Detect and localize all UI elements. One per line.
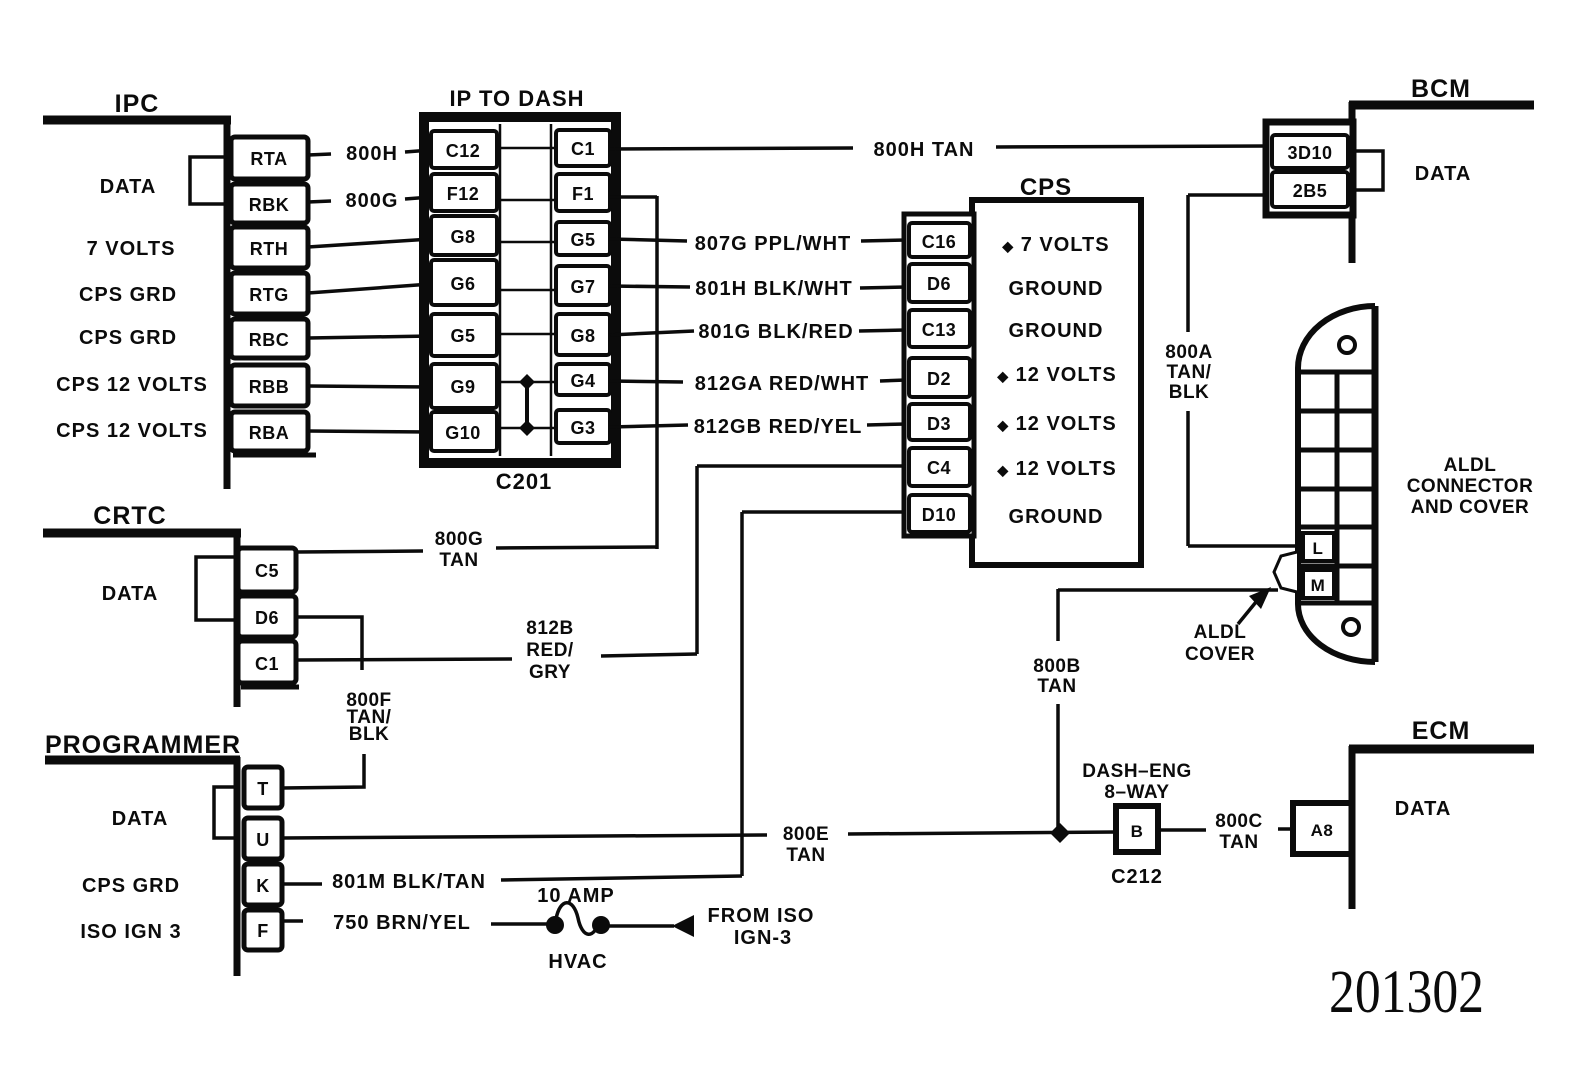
wire 800A vertical upper bbox=[1186, 195, 1190, 332]
svg-text:G6: G6 bbox=[450, 274, 475, 294]
svg-text:G7: G7 bbox=[570, 277, 595, 297]
svg-text:D2: D2 bbox=[927, 369, 951, 389]
C201 row link G6-G7 bbox=[497, 289, 556, 292]
pin RBK bbox=[231, 184, 308, 223]
svg-text:RTH: RTH bbox=[250, 239, 289, 259]
svg-text:B: B bbox=[1131, 822, 1144, 841]
fuse HVAC 10A left terminal bbox=[546, 916, 564, 934]
svg-text:C1: C1 bbox=[255, 654, 279, 674]
svg-text:800C: 800C bbox=[1215, 811, 1262, 832]
ALDL cover tab bbox=[1274, 552, 1297, 592]
svg-text:G5: G5 bbox=[570, 230, 595, 250]
wire G7 to label bbox=[610, 286, 690, 287]
svg-text:BLK: BLK bbox=[349, 724, 390, 745]
svg-text:800B: 800B bbox=[1033, 656, 1080, 677]
pin G10 bbox=[431, 412, 497, 451]
ALDL pin M bbox=[1303, 570, 1334, 598]
label 800F TAN/BLK bbox=[346, 690, 391, 745]
svg-text:D3: D3 bbox=[927, 414, 951, 434]
wire U to 800E label bbox=[282, 835, 767, 838]
svg-text:L: L bbox=[1313, 539, 1324, 558]
svg-text:D6: D6 bbox=[927, 274, 951, 294]
wire 800G TAN vertical bbox=[655, 196, 659, 549]
svg-text:CONNECTOR: CONNECTOR bbox=[1407, 476, 1534, 497]
svg-text:ALDL: ALDL bbox=[1194, 622, 1247, 643]
pin F1 bbox=[556, 174, 610, 211]
PROGRAMMER DATA bracket bbox=[214, 787, 237, 838]
CPS pin strip bbox=[904, 214, 974, 536]
pin D6 (CPS) bbox=[909, 264, 970, 302]
svg-text:800H: 800H bbox=[346, 143, 398, 165]
svg-text:TAN: TAN bbox=[439, 550, 478, 571]
wire RBK stub bbox=[308, 201, 331, 202]
pin D6 (CRTC) bbox=[238, 596, 296, 637]
svg-text:◆ 12 VOLTS: ◆ 12 VOLTS bbox=[996, 413, 1116, 435]
wire G5 to label bbox=[610, 239, 687, 241]
pin RTA bbox=[231, 137, 308, 179]
svg-text:BLK: BLK bbox=[1169, 382, 1210, 403]
svg-text:ISO IGN 3: ISO IGN 3 bbox=[80, 921, 181, 943]
svg-text:CPS GRD: CPS GRD bbox=[82, 875, 180, 897]
ALDL bottom screw hole bbox=[1343, 619, 1359, 635]
wire 800A horizontal stub bbox=[1188, 193, 1266, 197]
pin G9 bbox=[431, 364, 497, 408]
svg-text:800G: 800G bbox=[346, 190, 399, 212]
svg-text:HVAC: HVAC bbox=[548, 951, 607, 973]
svg-text:GROUND: GROUND bbox=[1009, 506, 1104, 528]
wire label to D3 bbox=[867, 424, 906, 425]
pin F12 bbox=[431, 174, 497, 211]
label 800B TAN bbox=[1033, 656, 1080, 697]
svg-text:DATA: DATA bbox=[100, 176, 157, 198]
svg-text:800H TAN: 800H TAN bbox=[874, 139, 975, 161]
pin C16 bbox=[909, 223, 970, 257]
svg-text:F1: F1 bbox=[572, 184, 594, 204]
pin U bbox=[244, 818, 282, 859]
svg-text:CPS GRD: CPS GRD bbox=[79, 327, 177, 349]
BCM connector body bbox=[1266, 122, 1353, 215]
wire 800A to ALDL L bbox=[1188, 544, 1298, 548]
svg-text:AND COVER: AND COVER bbox=[1411, 497, 1530, 518]
module PROGRAMMER header bbox=[45, 731, 241, 976]
pin G7 bbox=[556, 266, 610, 305]
svg-text:IPC: IPC bbox=[115, 90, 160, 118]
wire label to C16 bbox=[861, 240, 906, 241]
module IPC header bbox=[43, 90, 316, 489]
ALDL cover callout line bbox=[1238, 602, 1256, 624]
pin 3D10 bbox=[1272, 135, 1348, 168]
svg-text:TAN: TAN bbox=[786, 845, 825, 866]
wire D10/801M vertical bbox=[740, 512, 744, 876]
C201 tie bar G9-G10 bbox=[525, 382, 529, 428]
svg-text:RTG: RTG bbox=[249, 285, 289, 305]
svg-text:G8: G8 bbox=[450, 227, 475, 247]
svg-text:F12: F12 bbox=[447, 184, 480, 204]
ALDL pin L bbox=[1303, 533, 1334, 561]
ALDL grid bbox=[1298, 372, 1375, 603]
svg-text:U: U bbox=[256, 830, 270, 850]
svg-text:C1: C1 bbox=[571, 139, 595, 159]
wire 800H to C12 bbox=[405, 150, 431, 152]
svg-text:2B5: 2B5 bbox=[1293, 181, 1328, 201]
pin K bbox=[244, 864, 282, 905]
label ALDL COVER bbox=[1185, 622, 1255, 665]
pin G3 bbox=[556, 410, 610, 443]
svg-text:IP TO DASH: IP TO DASH bbox=[449, 86, 584, 111]
connector C201 body bbox=[424, 117, 616, 463]
BCM DATA bracket bbox=[1353, 151, 1383, 190]
wire D6 to 800F corner bbox=[298, 617, 362, 670]
wire 800B vertical lower bbox=[1056, 704, 1060, 834]
wire 800H TAN right segment bbox=[996, 146, 1267, 147]
svg-text:201302: 201302 bbox=[1329, 959, 1484, 1026]
label 800C TAN bbox=[1215, 811, 1262, 853]
wire 801M label to vertical bbox=[501, 876, 742, 880]
wire RTA stub bbox=[308, 154, 331, 155]
label 812B RED/GRY bbox=[526, 618, 574, 683]
C201 row link G10-G3 bbox=[497, 427, 556, 430]
fuse HVAC element bbox=[556, 903, 600, 935]
junction 800B/800E bbox=[1050, 823, 1070, 843]
svg-text:C13: C13 bbox=[922, 320, 957, 340]
CPS body bbox=[972, 200, 1141, 565]
svg-text:GRY: GRY bbox=[529, 662, 571, 683]
svg-text:PROGRAMMER: PROGRAMMER bbox=[45, 731, 241, 759]
label 800E TAN bbox=[783, 824, 829, 866]
svg-text:C12: C12 bbox=[446, 141, 481, 161]
wire C5 to 800G label bbox=[297, 551, 423, 552]
svg-text:GROUND: GROUND bbox=[1009, 320, 1104, 342]
svg-text:G3: G3 bbox=[570, 418, 595, 438]
pin D2 bbox=[909, 358, 970, 397]
wire G8 to label bbox=[610, 331, 694, 335]
label DASH-ENG 8-WAY bbox=[1082, 761, 1192, 803]
junction dot G9 row bbox=[519, 374, 535, 390]
svg-text:TAN: TAN bbox=[1219, 832, 1258, 853]
wire G3 to label bbox=[610, 425, 688, 427]
wire 800E label to B bbox=[848, 832, 1116, 834]
svg-text:G9: G9 bbox=[450, 377, 475, 397]
pin G4 bbox=[556, 364, 610, 395]
pin RTG bbox=[231, 273, 308, 314]
svg-text:CPS: CPS bbox=[1020, 174, 1072, 201]
module ECM header bbox=[1349, 717, 1534, 909]
pin G5 left bbox=[431, 314, 497, 356]
wire 812B label to corner bbox=[601, 654, 697, 656]
arrowhead FROM ISO IGN-3 bbox=[672, 915, 694, 937]
wire 800B vertical upper bbox=[1056, 589, 1060, 641]
svg-text:812GB RED/YEL: 812GB RED/YEL bbox=[694, 416, 863, 438]
svg-text:DASH–ENG: DASH–ENG bbox=[1082, 761, 1192, 782]
svg-text:812B: 812B bbox=[526, 618, 573, 639]
pin D3 bbox=[909, 404, 970, 440]
pin C13 bbox=[909, 310, 970, 347]
label 800A TAN/BLK bbox=[1165, 342, 1212, 403]
svg-text:D10: D10 bbox=[922, 505, 957, 525]
svg-text:FROM ISO: FROM ISO bbox=[708, 905, 815, 927]
C201 middle rails bbox=[499, 124, 502, 456]
svg-text:TAN/: TAN/ bbox=[1167, 362, 1212, 383]
svg-text:800A: 800A bbox=[1165, 342, 1212, 363]
wire C1 to 812B label bbox=[298, 659, 512, 660]
pin RBC bbox=[231, 319, 308, 358]
svg-text:812GA RED/WHT: 812GA RED/WHT bbox=[695, 373, 870, 395]
svg-text:G8: G8 bbox=[570, 326, 595, 346]
label FROM ISO IGN-3 bbox=[708, 905, 815, 949]
svg-text:C16: C16 bbox=[922, 232, 957, 252]
svg-text:◆ 7 VOLTS: ◆ 7 VOLTS bbox=[1001, 234, 1109, 256]
junction dot G10 row bbox=[519, 420, 535, 436]
wire 800B horizontal to M bbox=[1058, 588, 1278, 592]
svg-text:DATA: DATA bbox=[1415, 163, 1472, 185]
svg-text:M: M bbox=[1311, 576, 1326, 595]
label 800G TAN bbox=[435, 529, 483, 571]
wire 800C label to A8 bbox=[1278, 827, 1293, 831]
svg-text:801H BLK/WHT: 801H BLK/WHT bbox=[695, 278, 853, 300]
ALDL top screw hole bbox=[1339, 337, 1355, 353]
svg-text:801G BLK/RED: 801G BLK/RED bbox=[698, 321, 853, 343]
wire RTG to G6 bbox=[308, 284, 431, 293]
label ALDL CONNECTOR AND COVER bbox=[1407, 455, 1534, 518]
svg-text:7 VOLTS: 7 VOLTS bbox=[87, 238, 176, 260]
pin F bbox=[244, 910, 282, 950]
wire label to D2 bbox=[880, 380, 906, 381]
svg-text:F: F bbox=[257, 921, 269, 941]
svg-text:◆ 12 VOLTS: ◆ 12 VOLTS bbox=[996, 458, 1116, 480]
pin G6 bbox=[431, 260, 497, 305]
wire 800H TAN left segment bbox=[610, 148, 853, 149]
wire 800G label to vertical bbox=[496, 547, 657, 548]
svg-text:RBC: RBC bbox=[249, 330, 290, 350]
pin RBB bbox=[231, 365, 308, 406]
svg-text:RTA: RTA bbox=[250, 149, 287, 169]
fuse HVAC 10A right terminal bbox=[592, 916, 610, 934]
svg-text:G5: G5 bbox=[450, 326, 475, 346]
svg-text:D6: D6 bbox=[255, 608, 279, 628]
svg-text:DATA: DATA bbox=[102, 583, 159, 605]
svg-text:K: K bbox=[256, 876, 270, 896]
svg-text:BCM: BCM bbox=[1411, 75, 1471, 103]
wire D10 horizontal bbox=[742, 510, 906, 514]
wire F stub bbox=[282, 919, 303, 923]
svg-text:CPS 12 VOLTS: CPS 12 VOLTS bbox=[56, 374, 208, 396]
module CRTC header bbox=[43, 502, 299, 707]
C201 row link F12-F1 bbox=[497, 199, 556, 202]
wire 800A vertical lower bbox=[1186, 411, 1190, 546]
wire RBA to G10 bbox=[308, 431, 431, 432]
wire 812B vertical bbox=[695, 466, 699, 654]
pin RBA bbox=[231, 412, 308, 451]
svg-text:CPS 12 VOLTS: CPS 12 VOLTS bbox=[56, 420, 208, 442]
svg-text:10 AMP: 10 AMP bbox=[537, 885, 615, 907]
svg-text:800G: 800G bbox=[435, 529, 483, 550]
wire K stub bbox=[282, 882, 322, 886]
C201 row link G8-G5 bbox=[497, 241, 556, 244]
svg-text:ALDL: ALDL bbox=[1444, 455, 1497, 476]
connector C212 box B bbox=[1116, 806, 1158, 852]
svg-text:TAN: TAN bbox=[1037, 676, 1076, 697]
CRTC DATA bracket bbox=[196, 557, 237, 620]
wire 800F lower to T bbox=[282, 754, 364, 788]
svg-text:IGN-3: IGN-3 bbox=[734, 927, 792, 949]
wire F1 stub bbox=[610, 195, 657, 199]
C201 row link G5-G8 bbox=[497, 333, 556, 336]
svg-text:CRTC: CRTC bbox=[93, 502, 166, 530]
svg-text:◆ 12 VOLTS: ◆ 12 VOLTS bbox=[996, 364, 1116, 386]
svg-text:C5: C5 bbox=[255, 561, 279, 581]
pin RTH bbox=[231, 227, 308, 268]
svg-text:C212: C212 bbox=[1111, 866, 1163, 888]
svg-text:RBB: RBB bbox=[249, 377, 290, 397]
wire RBC to G5 bbox=[308, 336, 431, 338]
wire 800G to F12 bbox=[405, 197, 431, 199]
svg-text:COVER: COVER bbox=[1185, 644, 1255, 665]
svg-text:ECM: ECM bbox=[1412, 717, 1471, 745]
pin G8 right bbox=[556, 314, 610, 355]
ALDL cover callout arrowhead bbox=[1249, 587, 1271, 609]
svg-text:G10: G10 bbox=[445, 423, 481, 443]
svg-text:GROUND: GROUND bbox=[1009, 278, 1104, 300]
pin C5 bbox=[238, 548, 296, 592]
pin G8 left bbox=[431, 216, 497, 255]
svg-text:750 BRN/YEL: 750 BRN/YEL bbox=[333, 912, 471, 934]
wire RTH to G8 bbox=[308, 239, 431, 247]
svg-text:RED/: RED/ bbox=[526, 640, 574, 661]
wire G4 to label bbox=[610, 381, 683, 382]
svg-text:C4: C4 bbox=[927, 458, 951, 478]
wire label to C13 bbox=[859, 330, 906, 331]
pin G5 right bbox=[556, 222, 610, 255]
pin T bbox=[244, 767, 282, 808]
wire label to D6 bbox=[860, 287, 906, 288]
svg-text:801M BLK/TAN: 801M BLK/TAN bbox=[332, 871, 486, 893]
svg-text:CPS GRD: CPS GRD bbox=[79, 284, 177, 306]
wire fuse to arrow bbox=[609, 924, 674, 928]
svg-text:G4: G4 bbox=[570, 371, 595, 391]
wire B to 800C label bbox=[1158, 828, 1206, 832]
svg-text:T: T bbox=[257, 779, 269, 799]
svg-text:800E: 800E bbox=[783, 824, 829, 845]
svg-text:C201: C201 bbox=[496, 469, 553, 494]
svg-text:A8: A8 bbox=[1311, 821, 1334, 840]
pin D10 bbox=[909, 495, 970, 532]
module BCM header bbox=[1349, 75, 1534, 263]
pin A8 bbox=[1293, 803, 1352, 854]
svg-text:RBK: RBK bbox=[249, 195, 290, 215]
pin C12 bbox=[431, 131, 497, 168]
C201 row link C12-C1 bbox=[497, 147, 556, 150]
wire 750 label to fuse bbox=[491, 922, 548, 926]
pin C4 bbox=[909, 448, 970, 486]
svg-text:3D10: 3D10 bbox=[1287, 143, 1332, 163]
wire RBB to G9 bbox=[308, 386, 431, 387]
ALDL connector outline bbox=[1298, 306, 1375, 662]
svg-text:807G PPL/WHT: 807G PPL/WHT bbox=[695, 233, 851, 255]
C201 row link G9-G4 bbox=[497, 381, 556, 384]
svg-text:8–WAY: 8–WAY bbox=[1104, 782, 1169, 803]
svg-text:DATA: DATA bbox=[1395, 798, 1452, 820]
pin 2B5 bbox=[1272, 172, 1348, 207]
svg-text:RBA: RBA bbox=[249, 423, 290, 443]
pin C1 bbox=[556, 130, 610, 166]
svg-text:DATA: DATA bbox=[112, 808, 169, 830]
wire 812B to C4 bbox=[697, 464, 906, 468]
IPC DATA bracket bbox=[190, 157, 227, 204]
pin C1 (CRTC) bbox=[238, 641, 296, 683]
